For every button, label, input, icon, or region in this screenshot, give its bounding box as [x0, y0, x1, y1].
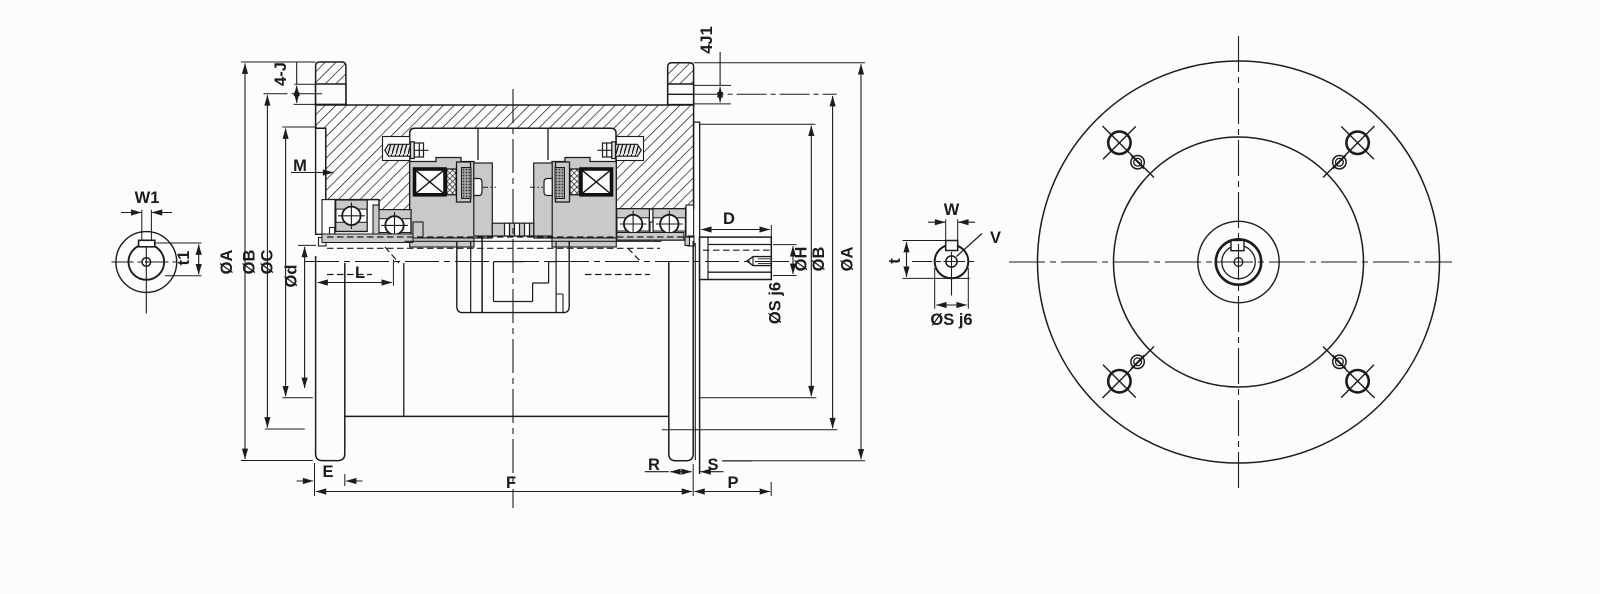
svg-text:E: E [322, 463, 333, 481]
svg-text:ØA: ØA [218, 250, 236, 275]
svg-text:ØA: ØA [839, 247, 857, 272]
svg-text:P: P [727, 474, 738, 492]
svg-text:ØB: ØB [241, 250, 259, 275]
svg-text:V: V [990, 229, 1001, 247]
svg-text:S: S [707, 456, 718, 474]
svg-text:D: D [723, 210, 735, 228]
svg-text:4-J: 4-J [272, 62, 290, 86]
svg-text:ØS j6: ØS j6 [930, 311, 972, 329]
svg-text:t1: t1 [175, 251, 193, 266]
svg-text:F: F [506, 474, 516, 492]
svg-text:M: M [293, 157, 307, 175]
svg-text:R: R [648, 456, 660, 474]
svg-text:L: L [355, 264, 365, 282]
svg-text:ØH: ØH [793, 247, 811, 272]
svg-text:W1: W1 [135, 189, 160, 207]
svg-text:ØS j6: ØS j6 [767, 282, 785, 324]
svg-text:4J1: 4J1 [698, 26, 716, 54]
svg-text:W: W [944, 201, 960, 219]
svg-text:Ød: Ød [283, 265, 301, 288]
svg-text:ØB: ØB [810, 247, 828, 272]
svg-text:t: t [886, 258, 904, 264]
svg-text:ØC: ØC [259, 250, 277, 275]
